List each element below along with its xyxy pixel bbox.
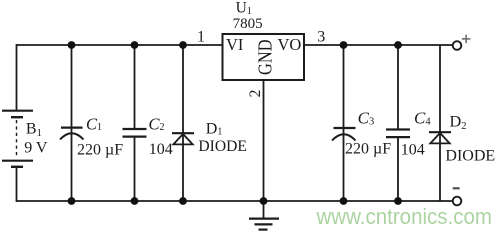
capacitor C2 [123, 129, 147, 137]
wire D1 branch [182, 45, 184, 201]
wire D2 branch [439, 45, 441, 201]
svg-text:104: 104 [401, 142, 425, 159]
node C3 top [340, 41, 348, 49]
svg-text:C3: C3 [358, 108, 375, 127]
node C4 bottom [394, 197, 402, 205]
svg-text:C1: C1 [86, 114, 102, 133]
terminal minus [453, 197, 462, 206]
terminal plus [453, 41, 462, 50]
wire top rail left [17, 44, 223, 46]
svg-text:220 µF: 220 µF [77, 142, 123, 159]
node D1 top [179, 41, 187, 49]
capacitor C1 [60, 128, 84, 140]
node C4 top [394, 41, 402, 49]
capacitor C3 [332, 128, 356, 141]
node C2 bottom [131, 197, 139, 205]
ground [249, 219, 279, 230]
svg-text:www.cntronics.com: www.cntronics.com [316, 204, 492, 229]
svg-text:DIODE: DIODE [198, 138, 247, 155]
svg-text:104: 104 [149, 141, 173, 158]
op-amp U1 regulator box [223, 34, 305, 80]
svg-text:D1: D1 [206, 120, 223, 137]
diode D2 [429, 132, 451, 143]
svg-text:C2: C2 [149, 114, 165, 133]
node D1 bottom [179, 197, 187, 205]
node C1 bottom [68, 197, 76, 205]
wire bottom rail [17, 200, 453, 202]
wire GND pin 2 [263, 80, 265, 218]
svg-text:7805: 7805 [233, 16, 263, 32]
svg-text:9 V: 9 V [24, 140, 48, 157]
wire battery branch [16, 44, 18, 202]
node C1 top [68, 41, 76, 49]
svg-text:DIODE: DIODE [445, 148, 495, 165]
svg-text:C4: C4 [414, 108, 431, 127]
svg-text:2: 2 [247, 90, 264, 98]
svg-text:D2: D2 [450, 112, 467, 133]
wire C2 branch [134, 45, 136, 201]
node GND bottom [260, 197, 268, 205]
svg-text:220 µF: 220 µF [345, 141, 391, 158]
svg-text:B1: B1 [26, 121, 42, 139]
node C2 top [131, 41, 139, 49]
label plus [462, 35, 470, 43]
wire C3 branch [343, 45, 345, 201]
capacitor C4 [386, 130, 410, 138]
wire top rail right [304, 44, 453, 46]
svg-text:1: 1 [197, 28, 205, 45]
svg-text:VI: VI [226, 35, 243, 54]
svg-text:GND: GND [255, 39, 277, 74]
svg-text:VO: VO [278, 35, 302, 54]
node C3 bottom [340, 197, 348, 205]
label minus [453, 187, 460, 189]
wire C1 branch [71, 45, 73, 201]
diode D1 [172, 133, 194, 144]
svg-text:3: 3 [317, 29, 325, 46]
svg-text:U1: U1 [236, 0, 252, 17]
wire C4 branch [397, 45, 399, 201]
battery B1 [2, 111, 33, 167]
